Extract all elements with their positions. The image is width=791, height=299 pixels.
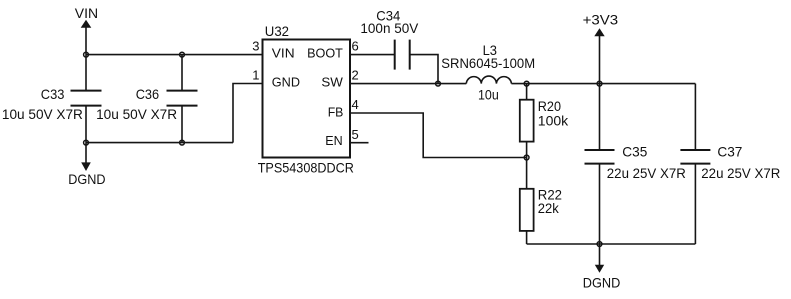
svg-text:C36: C36 — [136, 87, 160, 102]
U32 pin 1 number — [252, 68, 259, 83]
wire DGND left stem — [85, 143, 87, 163]
U32 pin name VIN — [272, 46, 295, 61]
inductor L3 — [441, 43, 535, 103]
svg-text:3: 3 — [252, 39, 259, 54]
svg-text:U32: U32 — [265, 24, 289, 39]
svg-text:100n 50V: 100n 50V — [360, 21, 419, 36]
wire C33 lower lead — [85, 106, 87, 143]
wire L3 output rail +3V3 net — [511, 83, 695, 85]
wire SW pin 2 to L3 — [350, 83, 466, 85]
wire R20 top lead — [526, 84, 528, 100]
svg-text:22u 25V X7R: 22u 25V X7R — [607, 166, 686, 181]
ground flag DGND right — [583, 265, 621, 291]
ground flag DGND left — [68, 162, 105, 187]
U32 pin 6 number — [352, 39, 359, 54]
junction node DGND at C33 — [84, 140, 89, 145]
wire top rail VIN net — [86, 54, 263, 56]
svg-text:10u: 10u — [478, 88, 499, 103]
wire C35 upper lead — [599, 84, 601, 150]
U32 pin 2 number — [352, 68, 359, 83]
svg-text:R22: R22 — [538, 187, 562, 202]
wire R22 bottom lead — [526, 231, 528, 244]
svg-text:C35: C35 — [622, 144, 647, 159]
svg-text:VIN: VIN — [75, 6, 98, 21]
svg-text:BOOT: BOOT — [307, 46, 343, 61]
capacitor C33 — [2, 87, 102, 122]
capacitor C36 — [96, 87, 197, 122]
svg-text:C37: C37 — [717, 144, 742, 159]
wire C36 lower lead — [181, 106, 183, 143]
U32 pin name BOOT — [307, 46, 343, 61]
svg-text:R20: R20 — [538, 99, 561, 114]
wire C33 upper lead — [85, 55, 87, 91]
resistor R20 — [520, 99, 568, 142]
junction node FB divider — [524, 155, 529, 160]
wire pin 6 BOOT to C34 — [350, 54, 395, 56]
svg-text:4: 4 — [352, 97, 359, 112]
svg-text:6: 6 — [352, 39, 359, 54]
capacitor C35 — [585, 144, 686, 181]
junction node +3V3 at R20 — [524, 81, 529, 86]
svg-text:1: 1 — [252, 68, 259, 83]
svg-text:GND: GND — [272, 74, 300, 89]
capacitor C34 — [360, 9, 419, 70]
U32 pin 4 number — [352, 97, 359, 112]
power flag +3V3 — [583, 13, 619, 37]
wire EN pin 5 stub — [350, 142, 369, 144]
junction node +3V3 at C35 — [597, 81, 602, 86]
svg-text:TPS54308DDCR: TPS54308DDCR — [258, 161, 354, 176]
svg-text:100k: 100k — [538, 113, 568, 128]
wire C35 lower lead — [599, 164, 601, 244]
op-amp U32 TPS54308DDCR body — [258, 24, 354, 176]
svg-text:VIN: VIN — [272, 46, 295, 61]
wire C37 upper lead — [694, 84, 696, 150]
svg-text:C33: C33 — [41, 87, 65, 102]
capacitor C37 — [680, 144, 780, 181]
U32 pin name SW — [321, 74, 343, 89]
U32 pin name FB — [328, 105, 344, 120]
wire R20 bottom lead — [526, 142, 528, 158]
resistor R22 — [520, 187, 562, 231]
svg-text:EN: EN — [325, 133, 342, 148]
U32 pin 3 number — [252, 39, 259, 54]
wire C34 to SW node — [410, 55, 438, 84]
junction node VIN at C36 — [180, 52, 185, 57]
wire VIN flag stem — [85, 27, 87, 55]
junction node DGND at C35 — [597, 242, 602, 247]
U32 pin name EN — [325, 133, 342, 148]
svg-text:10u 50V X7R: 10u 50V X7R — [96, 107, 177, 122]
svg-text:2: 2 — [352, 68, 359, 83]
wire R22 top lead — [526, 158, 528, 189]
wire bottom left ground rail — [86, 142, 233, 144]
wire FB pin 4 to divider node — [350, 113, 527, 158]
svg-text:22k: 22k — [538, 201, 559, 216]
junction node SW at C34 — [436, 81, 441, 86]
svg-text:5: 5 — [352, 127, 359, 142]
svg-text:DGND: DGND — [68, 172, 105, 187]
wire C36 upper lead — [181, 55, 183, 91]
svg-text:+3V3: +3V3 — [583, 13, 619, 28]
power flag VIN — [75, 6, 98, 28]
wire GND return to pin 1 — [233, 84, 263, 143]
svg-text:SRN6045-100M: SRN6045-100M — [441, 56, 535, 71]
svg-text:DGND: DGND — [583, 276, 621, 291]
wire bottom right ground rail — [527, 243, 696, 245]
svg-text:10u 50V X7R: 10u 50V X7R — [2, 107, 83, 122]
svg-text:22u 25V X7R: 22u 25V X7R — [701, 166, 780, 181]
wire DGND right stem — [599, 244, 601, 266]
wire C37 lower lead — [694, 164, 696, 244]
svg-text:FB: FB — [328, 105, 344, 120]
svg-text:SW: SW — [321, 74, 343, 89]
U32 pin name GND — [272, 74, 300, 89]
junction node DGND at C36 — [180, 140, 185, 145]
junction node VIN at C33 — [84, 52, 89, 57]
wire +3V3 flag stem — [599, 36, 601, 84]
U32 pin 5 number — [352, 127, 359, 142]
